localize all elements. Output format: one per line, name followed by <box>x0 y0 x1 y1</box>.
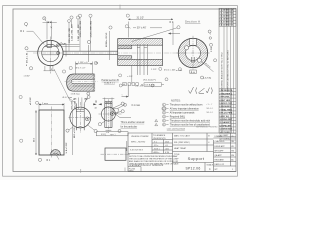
svg-text:2 max: 2 max <box>42 103 49 105</box>
svg-text:RELEASE: RELEASE <box>215 159 225 162</box>
rotated view leader diagonal <box>54 69 71 102</box>
bottom dim of front view <box>44 66 56 71</box>
svg-text:R 1: R 1 <box>47 159 51 162</box>
svg-text:UNLESS OTHERW: UNLESS OTHERW <box>131 136 149 138</box>
svg-text:X.XX XX°XX'X: X.XX XX°XX'X <box>130 150 144 152</box>
inner frame <box>13 9 236 172</box>
svg-text:This is another unusual: This is another unusual <box>121 121 145 124</box>
svg-text:DATE 4.12: DATE 4.12 <box>215 163 226 166</box>
svg-text:Ø 0.7 max: Ø 0.7 max <box>63 97 74 99</box>
svg-text:uses and machined: uses and machined <box>167 128 186 130</box>
svg-text:10 RING RET: 10 RING RET <box>219 119 233 121</box>
svg-text:0.1 max: 0.1 max <box>132 104 141 107</box>
partial section detail <box>65 74 98 91</box>
svg-text:SUPPORT CASTING LIST NO 12 REF: SUPPORT CASTING LIST NO 12 REF DWG <box>227 50 230 92</box>
lower keyway in bore <box>191 57 194 62</box>
svg-text:1.125 +.000 -.002: 1.125 +.000 -.002 <box>90 20 92 37</box>
svg-text:for the particular: for the particular <box>121 125 138 128</box>
svg-text:B: B <box>95 99 97 103</box>
front view <box>38 37 63 74</box>
small detail rectangle bottom middle <box>101 148 131 160</box>
svg-text:Ø 0.7 ± 0°: Ø 0.7 ± 0° <box>76 68 86 70</box>
svg-text:4 NUT HEX: 4 NUT HEX <box>219 99 230 102</box>
keyway slot top <box>45 40 57 48</box>
svg-text:5 8.21 REV E5: 5 8.21 REV E5 <box>219 22 234 24</box>
svg-text:MATL: STL CAST: MATL: STL CAST <box>174 135 191 138</box>
svg-text:SCALE: SCALE <box>207 164 214 167</box>
svg-text:MOUNTING BRACKET ASSY NO 4 SP1: MOUNTING BRACKET ASSY NO 4 SP12 <box>221 51 224 91</box>
svg-text:spec ): spec ) <box>110 134 116 136</box>
svg-text:9 KEY SQ: 9 KEY SQ <box>219 116 229 118</box>
notes list <box>155 103 218 130</box>
svg-text:4 6.14 REV D3: 4 6.14 REV D3 <box>219 18 234 21</box>
svg-text:11 GASKET: 11 GASKET <box>219 121 231 124</box>
svg-text:(-6.25 A): (-6.25 A) <box>204 76 212 79</box>
section A circular view <box>177 36 214 72</box>
svg-text:FM: FM <box>231 155 234 157</box>
svg-text:+ X + Y: + X + Y <box>206 104 213 106</box>
revision table top right <box>219 8 236 26</box>
svg-text:.375+.000: .375+.000 <box>74 100 76 110</box>
svg-text:Ø 0.1 ± .005: Ø 0.1 ± .005 <box>164 69 176 71</box>
svg-text:2 3.11 REV B2: 2 3.11 REV B2 <box>219 13 234 15</box>
dims rect view <box>19 95 76 155</box>
datum flag below section A <box>190 70 197 74</box>
flag note left of notes <box>113 103 144 128</box>
svg-text:1 1/8 max: 1 1/8 max <box>71 94 81 96</box>
svg-text:7 SEAL RNG: 7 SEAL RNG <box>219 108 232 111</box>
svg-text:8 ± 1 1/2°: 8 ± 1 1/2° <box>66 142 68 151</box>
section view <box>118 39 163 76</box>
R1 callout top left <box>20 23 44 45</box>
svg-text:F.1234: F.1234 <box>129 169 136 171</box>
balloon near rod <box>87 40 90 43</box>
svg-text:± 1/32°: ± 1/32° <box>24 75 31 77</box>
svg-text:CHECKED: CHECKED <box>215 141 225 143</box>
svg-text:31 1/2°: 31 1/2° <box>137 17 145 20</box>
svg-text:0.01 A (0.3): 0.01 A (0.3) <box>145 84 156 87</box>
bottom right cylinder view <box>99 98 123 134</box>
rod side view <box>63 44 118 63</box>
svg-text:±0.1 1/2°: ±0.1 1/2° <box>30 97 32 105</box>
svg-text:dd: dd <box>95 108 97 110</box>
dims above partial section <box>62 61 97 74</box>
dim slot width top <box>43 21 57 39</box>
zone ticks bottom border <box>81 168 125 173</box>
svg-text:ENGR APP: ENGR APP <box>215 145 226 148</box>
svg-text:R 1: R 1 <box>20 30 25 33</box>
svg-text:1.750: 1.750 <box>211 46 213 52</box>
svg-text:X.X.(: X.X.( <box>101 134 106 136</box>
gdt frame row <box>123 83 139 86</box>
svg-text:MIL-F-1: MIL-F-1 <box>207 108 214 110</box>
balloon slot dim <box>43 17 46 21</box>
tapped holes in section <box>137 44 147 75</box>
svg-text:2 WASHER L: 2 WASHER L <box>219 92 232 95</box>
svg-text:TOLERANCE: TOLERANCE <box>153 134 166 137</box>
dims bottom right view <box>98 102 124 134</box>
svg-text:QA APP: QA APP <box>215 154 223 157</box>
svg-text:6 9.03 REV F2: 6 9.03 REV F2 <box>219 25 233 27</box>
left side dims of front view <box>24 47 42 78</box>
svg-text:1.250 +.000 -.002: 1.250 +.000 -.002 <box>80 20 82 37</box>
small hole on ring <box>56 44 59 47</box>
surface finish symbol row <box>189 87 213 94</box>
svg-text:MFG APP: MFG APP <box>215 150 225 153</box>
svg-text:SCALE 2:1: SCALE 2:1 <box>104 82 116 85</box>
svg-text:1 SCREW FIL: 1 SCREW FIL <box>219 90 233 92</box>
svg-text:MIL-F-1: MIL-F-1 <box>207 112 214 114</box>
bottom left circle view <box>69 98 93 134</box>
svg-text:UNLESS NTD: UNLESS NTD <box>153 138 166 140</box>
svg-text:14 COVER: 14 COVER <box>219 131 230 134</box>
svg-text:Ø0.1 ± 0.05: Ø0.1 ± 0.05 <box>74 127 76 138</box>
B section arrows <box>93 99 101 109</box>
parts list table right <box>219 89 236 141</box>
svg-text:1/4 - 1/2: 1/4 - 1/2 <box>135 86 143 88</box>
svg-text:1 1/2°: 1 1/2° <box>151 69 157 71</box>
long centerline <box>33 52 210 54</box>
svg-text:SPEC - NOTED: SPEC - NOTED <box>131 142 146 144</box>
svg-text:A°: A° <box>123 83 125 86</box>
svg-text:± 1/2°: ± 1/2° <box>127 76 133 78</box>
zone tick top border <box>119 5 121 10</box>
svg-text:3 PIN DWL: 3 PIN DWL <box>219 97 230 99</box>
mound boss at bottom <box>50 149 61 155</box>
leader diagonal lower right <box>197 58 214 72</box>
svg-text:8 PLUG PIPE: 8 PLUG PIPE <box>219 113 232 115</box>
svg-text:m 0.5±: m 0.5± <box>176 70 183 72</box>
svg-text:HEAT TREAT: HEAT TREAT <box>174 147 187 150</box>
dim col right of shaft <box>109 26 112 60</box>
svg-text:Partial section B: Partial section B <box>102 79 120 82</box>
svg-text:All important commands: All important commands <box>170 111 195 114</box>
dims below section <box>119 66 182 88</box>
svg-text:30° ± 40': 30° ± 40' <box>137 27 147 30</box>
svg-text:Ø 1.5 ± .01: Ø 1.5 ± .01 <box>26 52 28 63</box>
svg-text:12 SPACER: 12 SPACER <box>219 124 231 127</box>
bolt hole on ring <box>185 46 189 50</box>
right side dims of front view <box>60 16 80 46</box>
svg-text:Support: Support <box>188 156 205 161</box>
svg-text:.XXX ±: .XXX ± <box>154 148 161 150</box>
small hole on centerline <box>57 52 60 55</box>
svg-text:DRAWN: DRAWN <box>215 135 223 138</box>
svg-text:Section A: Section A <box>185 20 200 24</box>
strip rotated text <box>221 50 230 92</box>
svg-text:FIN: (PER SPEC): FIN: (PER SPEC) <box>174 142 190 144</box>
balloons right of section A <box>201 30 217 79</box>
svg-text:R 1: R 1 <box>170 21 174 24</box>
boxed finish note <box>141 83 164 86</box>
title block <box>128 133 236 172</box>
svg-text:6 BUSHING: 6 BUSHING <box>219 106 231 108</box>
svg-text:1 1/8° ± 0: 1 1/8° ± 0 <box>78 62 88 64</box>
svg-text:OF APPARATUS WITHOUT PERMISSIO: OF APPARATUS WITHOUT PERMISSION <box>129 164 164 167</box>
svg-text:.500+.002: .500+.002 <box>71 100 73 110</box>
bottom left rectangle view <box>39 107 64 158</box>
svg-text:Required (MIL): Required (MIL) <box>170 115 186 118</box>
left mark near title block <box>126 141 128 151</box>
svg-text:All very important dimension: All very important dimension <box>170 107 200 110</box>
svg-text:Ø.350 ± .01 1/2: Ø.350 ± .01 1/2 <box>106 32 108 47</box>
dims above shaft <box>62 14 93 51</box>
outer border <box>3 6 238 177</box>
svg-text:13 SHIM SET: 13 SHIM SET <box>219 129 232 131</box>
svg-text:5 BODY CST: 5 BODY CST <box>219 103 232 105</box>
form number cell <box>128 167 141 172</box>
svg-text:1 2.04 REV A4: 1 2.04 REV A4 <box>219 9 234 12</box>
R1 callout under mound <box>38 155 59 162</box>
svg-text:Ø (1.5) (2) PL: Ø (1.5) (2) PL <box>143 80 157 82</box>
partial section label <box>102 79 120 85</box>
svg-text:SP12.06: SP12.06 <box>185 166 200 170</box>
svg-text:NOTES:: NOTES: <box>171 98 181 102</box>
svg-text:The piece must be without burr: The piece must be without burrs <box>170 103 204 106</box>
svg-text:The piece must be electrolytic: The piece must be electrolytic acid etch <box>170 119 211 122</box>
arrow below section label <box>169 33 181 34</box>
svg-text:REFERENCE, FINISHED: REFERENCE, FINISHED <box>196 126 218 128</box>
dims bottom left view <box>63 96 98 133</box>
svg-text:.500 +.002 -.000: .500 +.002 -.000 <box>69 27 71 43</box>
vertical centerline <box>49 37 51 74</box>
svg-text:ANG ±: ANG ± <box>154 151 161 154</box>
dims above section <box>125 14 180 45</box>
right vertical parts strip columns <box>219 26 234 133</box>
svg-text:TITLE: TITLE <box>174 154 180 156</box>
datum tick near section bottom <box>122 85 129 98</box>
svg-text:3 5.02 REV C1: 3 5.02 REV C1 <box>219 16 234 18</box>
unusual note text <box>121 121 145 128</box>
svg-text:1.125 +.002 -.000: 1.125 +.002 -.000 <box>71 24 73 41</box>
centerlines <box>192 36 194 70</box>
